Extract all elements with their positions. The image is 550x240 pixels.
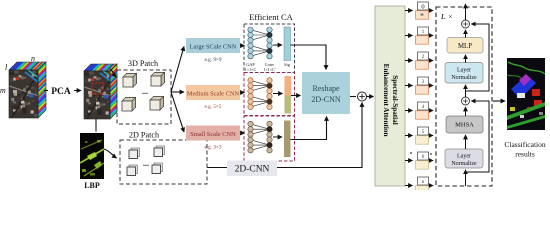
token pair 4 (405, 85, 413, 87)
token pair 6 (405, 135, 413, 137)
skip wire MLP (466, 24, 490, 91)
svg-text:Classification: Classification (504, 140, 545, 149)
svg-text:Efficient CA: Efficient CA (249, 12, 293, 22)
hyperspectral cube input (0, 25, 149, 120)
wire reshape to plus (350, 96, 356, 98)
svg-text:L: L (440, 12, 445, 21)
token pair 8 (405, 185, 413, 187)
token pair 3 (405, 60, 413, 62)
3D Patch dashed box (117, 70, 171, 124)
transformer encoder dashed box (436, 7, 492, 186)
svg-text:...: ... (142, 87, 148, 96)
skip wire MHSA (466, 101, 490, 172)
svg-text:Layer: Layer (457, 154, 471, 160)
svg-text:×: × (449, 14, 453, 21)
svg-text:e.g. 5×5: e.g. 5×5 (205, 104, 222, 110)
Large scale CNN box (186, 38, 240, 53)
svg-text:MLP: MLP (458, 43, 472, 50)
Reshape 2D-CNN box (302, 72, 350, 114)
token pair 7 (410, 152, 412, 154)
Efficient CA block 3 (244, 116, 295, 161)
adder 2 (462, 20, 470, 28)
wire LargeCNN to CA1 (240, 45, 245, 47)
svg-text:PCA: PCA (51, 87, 71, 97)
svg-text:Medium Scale CNN: Medium Scale CNN (187, 91, 240, 98)
svg-text:Small Scale CNN: Small Scale CNN (190, 131, 236, 138)
svg-text:results: results (515, 150, 535, 159)
svg-text:Normalize: Normalize (451, 75, 477, 81)
svg-text:Layer: Layer (457, 68, 471, 74)
svg-text:3D Patch: 3D Patch (128, 59, 158, 68)
wire 2D patch to plus circle (behind 2D-CNN box) (207, 103, 362, 168)
token pair 1 (405, 10, 413, 12)
curved wire cube2 to 3D patch (110, 69, 116, 77)
svg-text:LBP: LBP (84, 181, 100, 190)
wire MediumCNN to CA2 (240, 92, 245, 94)
svg-text:2D Patch: 2D Patch (129, 131, 159, 140)
wire cube1 to cube2 (44, 90, 81, 92)
wire CA2 out to reshape left (291, 95, 301, 97)
token pair 5 (405, 110, 413, 112)
fan wires 3D patch to CNNs (171, 47, 184, 93)
svg-text:Enhancement Attention: Enhancement Attention (382, 64, 390, 137)
svg-text:2D-CNN: 2D-CNN (311, 95, 341, 104)
svg-text:*: * (420, 12, 424, 21)
svg-text:n: n (31, 54, 35, 63)
svg-text:Large SCale CNN: Large SCale CNN (190, 44, 237, 51)
svg-text:e.g. 9×9: e.g. 9×9 (205, 57, 222, 63)
Medium scale CNN box (186, 85, 240, 100)
wire encoder to classification image (493, 100, 505, 102)
Efficient CA block 1 (244, 24, 295, 73)
encoder main flow (465, 170, 467, 186)
wire plus to attention box (367, 96, 374, 98)
curved wire LBP to 2D patch (104, 149, 117, 158)
plus circle adder (358, 92, 367, 101)
adder 1 (462, 97, 470, 105)
Small scale CNN box (186, 126, 240, 141)
svg-text:Normalize: Normalize (451, 161, 477, 167)
svg-text:1×1×C: 1×1×C (245, 67, 257, 72)
wire cube2 down to LBP (95, 119, 97, 132)
layer normalize bottom box (445, 149, 483, 168)
svg-text:2D-CNN: 2D-CNN (235, 165, 270, 175)
wire CA3 out to reshape bottom (291, 117, 327, 140)
layer normalize top box (445, 63, 483, 84)
MHSA box (446, 116, 483, 133)
svg-text:1×1×C': 1×1×C' (263, 67, 275, 72)
Spectral-Spatial Enhancement Attention box (375, 6, 405, 186)
MLP box (447, 38, 483, 54)
wire SmallCNN to CA3 (240, 132, 245, 134)
token pair 2 (405, 35, 413, 37)
svg-text:Sig: Sig (284, 62, 291, 67)
svg-text:e.g. 3×3: e.g. 3×3 (205, 145, 222, 151)
LBP image (80, 133, 104, 179)
2D-CNN box (227, 161, 277, 177)
svg-text:MHSA: MHSA (455, 122, 474, 129)
wire CA1 out to reshape top (291, 45, 327, 70)
svg-text:...: ... (143, 159, 149, 168)
PCA-reduced cube (47, 29, 221, 120)
classification result map (507, 58, 545, 130)
Efficient CA block 2 (244, 73, 295, 116)
2D Patch dashed box (120, 140, 207, 184)
svg-text:m: m (0, 86, 6, 95)
svg-text:Reshape: Reshape (312, 84, 340, 93)
svg-text:Spectral-Spatial: Spectral-Spatial (391, 75, 399, 125)
svg-text:0: 0 (421, 3, 424, 10)
